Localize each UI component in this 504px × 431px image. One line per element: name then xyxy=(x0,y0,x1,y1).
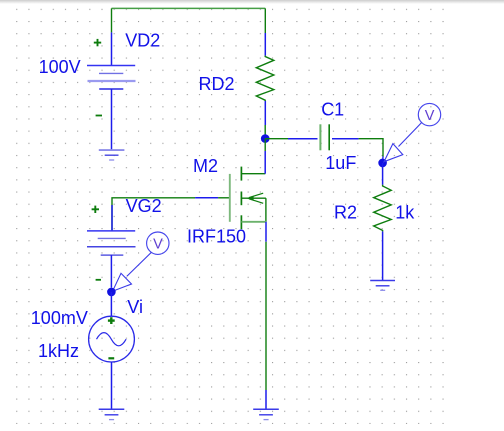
plus sign Vi xyxy=(108,317,115,324)
resistor R2 zigzag xyxy=(374,185,392,232)
svg-text:100V: 100V xyxy=(39,57,81,77)
svg-text:RD2: RD2 xyxy=(199,74,235,94)
wire top horizontal VD2 to RD2 xyxy=(112,7,266,9)
gate pin stub blue xyxy=(195,197,218,199)
wire node to C1 xyxy=(265,138,288,140)
svg-text:VG2: VG2 xyxy=(126,196,162,216)
drain pin stub xyxy=(264,139,266,151)
minus sign Vi xyxy=(108,357,114,359)
svg-text:1k: 1k xyxy=(395,203,415,223)
battery VG2 xyxy=(87,205,136,288)
wire right vertical from top to RD2 xyxy=(264,8,266,33)
plus sign VG2 xyxy=(92,206,99,213)
svg-text:1uF: 1uF xyxy=(325,153,356,173)
wire left vertical from top to VD2 xyxy=(111,8,113,32)
junction dot node drain/C1 xyxy=(261,134,270,143)
wire source to ground xyxy=(265,242,267,390)
svg-text:V: V xyxy=(425,108,435,124)
svg-text:V: V xyxy=(153,237,163,253)
battery VD2 xyxy=(87,32,136,150)
ground bottom right xyxy=(253,409,279,419)
ground bottom left xyxy=(99,409,125,419)
wire VG2 to gate xyxy=(112,198,195,231)
source Vi pin top xyxy=(110,292,112,316)
resistor R2 pins xyxy=(382,163,384,185)
svg-text:C1: C1 xyxy=(321,100,344,120)
ground under VD2 xyxy=(99,150,125,160)
svg-text:Vi: Vi xyxy=(127,297,143,317)
ground under R2 xyxy=(370,281,395,291)
svg-text:R2: R2 xyxy=(334,203,357,223)
sine wave xyxy=(97,333,127,346)
wire RD2 to node xyxy=(264,125,266,139)
svg-text:VD2: VD2 xyxy=(125,31,160,51)
capacitor C1 pin left xyxy=(288,138,318,140)
resistor RD2 pins xyxy=(264,33,266,56)
junction dot node C1/R2 xyxy=(378,159,387,168)
wire stub into node xyxy=(382,157,384,164)
svg-text:M2: M2 xyxy=(193,156,218,176)
source Vi circle xyxy=(89,316,135,362)
wire C1 to R2 node xyxy=(359,139,383,157)
svg-text:1kHz: 1kHz xyxy=(38,341,79,361)
capacitor C1 pin right xyxy=(332,138,359,140)
junction dot VG2/Vi xyxy=(107,288,116,297)
wire Vi to ground xyxy=(111,362,113,409)
svg-text:IRF150: IRF150 xyxy=(187,227,246,247)
capacitor C1 plates xyxy=(319,124,321,150)
plus sign VD2 xyxy=(94,39,101,46)
probe V gate xyxy=(113,232,170,291)
mosfet M2 xyxy=(218,167,266,230)
resistor RD2 zigzag xyxy=(256,56,274,101)
source pin stub xyxy=(265,222,267,242)
minus sign VD2 xyxy=(96,115,102,117)
svg-text:100mV: 100mV xyxy=(31,308,88,328)
minus sign VG2 xyxy=(96,279,101,281)
probe V output xyxy=(384,103,441,161)
